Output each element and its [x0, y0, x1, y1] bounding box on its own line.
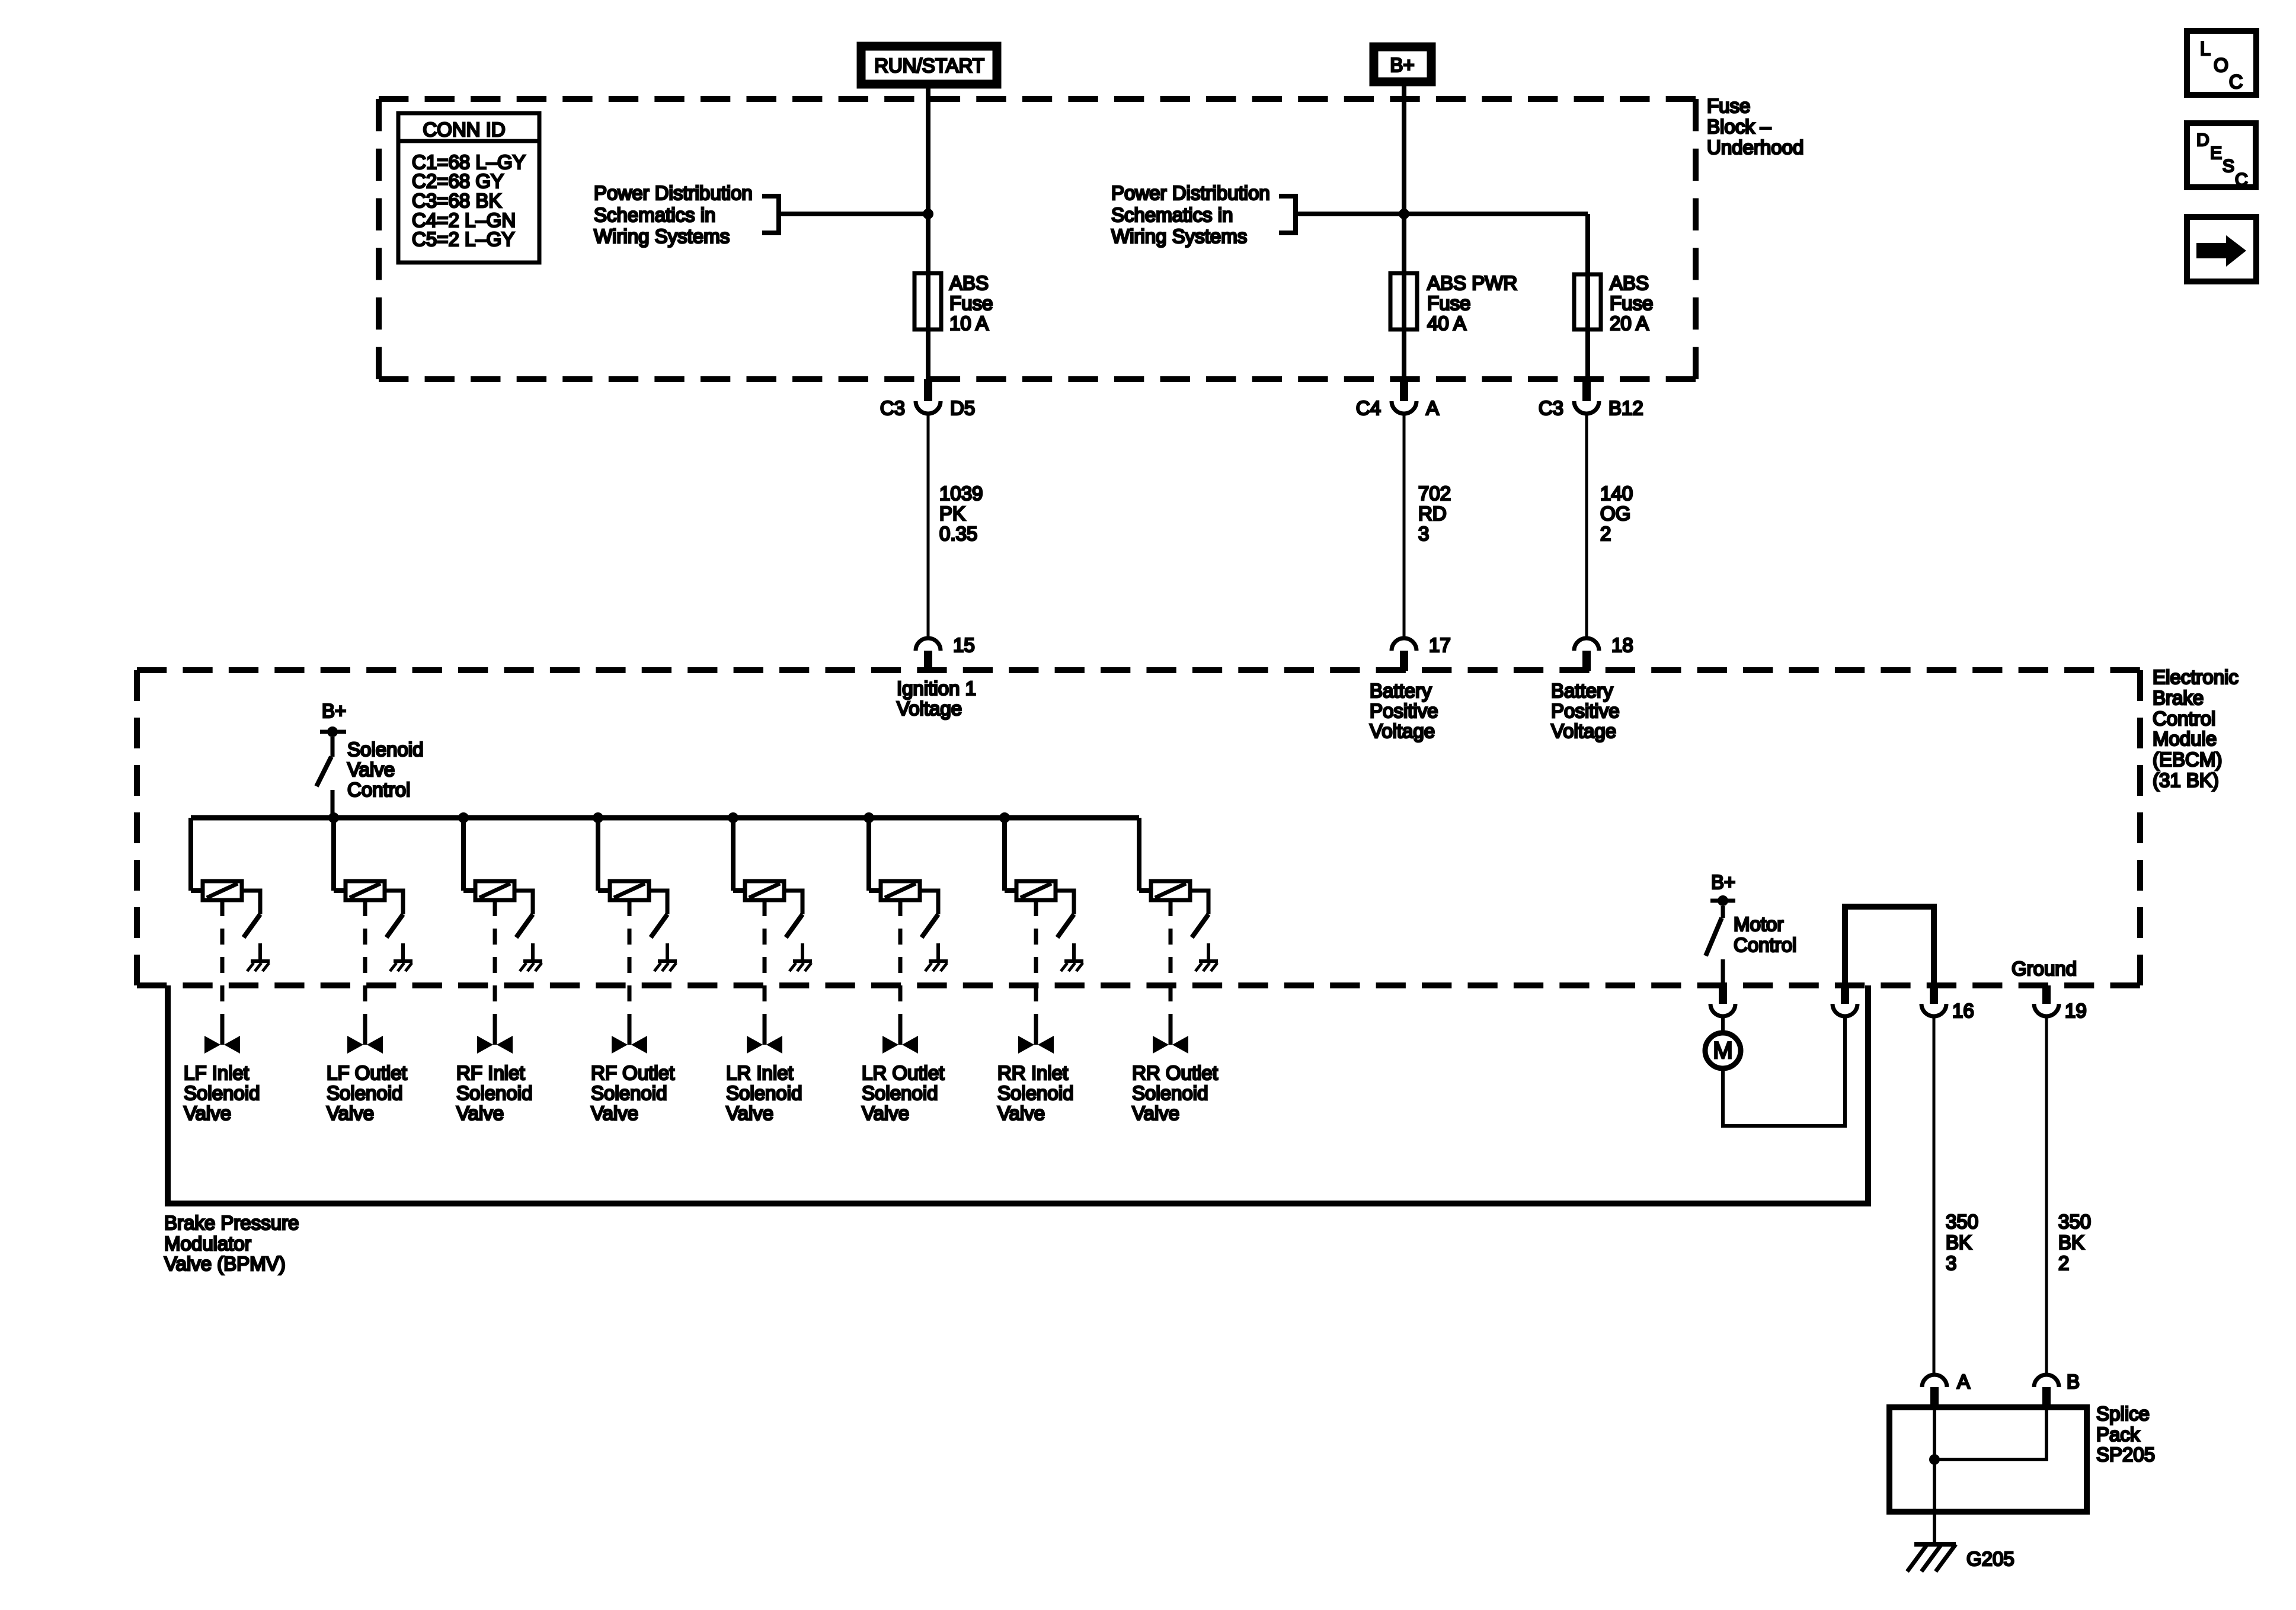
svg-text:Valve: Valve — [327, 1102, 374, 1124]
svg-text:3: 3 — [1946, 1252, 1956, 1274]
svg-text:Positive: Positive — [1551, 700, 1620, 722]
svg-text:Voltage: Voltage — [897, 697, 962, 719]
svg-text:RF Inlet: RF Inlet — [456, 1062, 525, 1084]
svg-text:Solenoid: Solenoid — [327, 1082, 402, 1104]
svg-text:Brake: Brake — [2153, 687, 2204, 709]
svg-text:Motor: Motor — [1734, 913, 1783, 935]
svg-text:Wiring Systems: Wiring Systems — [594, 225, 730, 247]
svg-text:Fuse: Fuse — [1707, 95, 1750, 117]
svg-text:702: 702 — [1418, 482, 1451, 504]
svg-text:Solenoid: Solenoid — [347, 738, 423, 760]
svg-text:Battery: Battery — [1551, 680, 1613, 702]
svg-text:Splice: Splice — [2096, 1403, 2150, 1425]
svg-text:LF Inlet: LF Inlet — [184, 1062, 249, 1084]
svg-text:OG: OG — [1600, 502, 1630, 524]
svg-text:Solenoid: Solenoid — [726, 1082, 802, 1104]
svg-text:A: A — [1957, 1371, 1970, 1393]
svg-text:C3: C3 — [1539, 397, 1563, 419]
svg-text:Valve: Valve — [591, 1102, 638, 1124]
svg-text:B+: B+ — [322, 700, 346, 722]
svg-text:1039: 1039 — [939, 482, 983, 504]
svg-text:PK: PK — [939, 502, 965, 524]
svg-text:Solenoid: Solenoid — [1132, 1082, 1208, 1104]
svg-text:C4: C4 — [1356, 397, 1381, 419]
svg-text:LF Outlet: LF Outlet — [327, 1062, 407, 1084]
svg-text:350: 350 — [1946, 1211, 1978, 1233]
svg-text:Wiring Systems: Wiring Systems — [1111, 225, 1247, 247]
svg-text:350: 350 — [2058, 1211, 2091, 1233]
svg-text:Solenoid: Solenoid — [591, 1082, 667, 1104]
svg-text:ABS: ABS — [949, 272, 989, 294]
svg-text:Control: Control — [1734, 934, 1796, 956]
svg-text:18: 18 — [1611, 634, 1633, 656]
svg-text:17: 17 — [1429, 634, 1451, 656]
svg-text:Ignition 1: Ignition 1 — [897, 677, 976, 699]
svg-text:ABS: ABS — [1610, 272, 1649, 294]
svg-text:Fuse: Fuse — [1427, 292, 1470, 314]
svg-text:Solenoid: Solenoid — [456, 1082, 532, 1104]
svg-text:Solenoid: Solenoid — [184, 1082, 260, 1104]
svg-text:Underhood: Underhood — [1707, 136, 1803, 158]
svg-text:D: D — [2196, 130, 2209, 150]
svg-text:Valve: Valve — [1132, 1102, 1179, 1124]
svg-text:CONN ID: CONN ID — [423, 119, 505, 140]
svg-text:Valve (BPMV): Valve (BPMV) — [164, 1253, 286, 1275]
svg-text:Module: Module — [2153, 728, 2217, 750]
svg-text:16: 16 — [1952, 1000, 1974, 1022]
svg-text:Brake Pressure: Brake Pressure — [164, 1212, 299, 1234]
svg-text:Valve: Valve — [347, 758, 395, 780]
svg-text:C5=2 L–GY: C5=2 L–GY — [412, 228, 514, 250]
svg-text:Valve: Valve — [997, 1102, 1045, 1124]
svg-text:ABS PWR: ABS PWR — [1427, 272, 1517, 294]
svg-text:Control: Control — [2153, 708, 2215, 729]
svg-text:Power Distribution: Power Distribution — [1111, 182, 1270, 204]
svg-text:Positive: Positive — [1370, 700, 1438, 722]
svg-text:LR Inlet: LR Inlet — [726, 1062, 794, 1084]
svg-text:Valve: Valve — [726, 1102, 773, 1124]
svg-text:Power Distribution: Power Distribution — [594, 182, 753, 204]
svg-text:BK: BK — [1946, 1231, 1972, 1253]
svg-text:Pack: Pack — [2096, 1423, 2140, 1445]
svg-text:B+: B+ — [1711, 871, 1735, 893]
svg-text:Control: Control — [347, 779, 410, 801]
svg-text:Valve: Valve — [184, 1102, 231, 1124]
svg-text:Fuse: Fuse — [1610, 292, 1653, 314]
svg-text:(31 BK): (31 BK) — [2153, 769, 2219, 791]
svg-text:B12: B12 — [1609, 397, 1643, 419]
svg-text:G205: G205 — [1966, 1548, 2014, 1570]
svg-text:C3=68 BK: C3=68 BK — [412, 190, 501, 212]
svg-text:S: S — [2223, 156, 2234, 176]
svg-text:LR Outlet: LR Outlet — [862, 1062, 944, 1084]
svg-text:Voltage: Voltage — [1370, 720, 1435, 742]
svg-text:B: B — [2067, 1371, 2080, 1393]
svg-text:SP205: SP205 — [2096, 1443, 2155, 1465]
svg-text:B+: B+ — [1390, 54, 1414, 76]
svg-text:Block –: Block – — [1707, 116, 1771, 137]
svg-text:C2=68 GY: C2=68 GY — [412, 170, 504, 192]
svg-text:BK: BK — [2058, 1231, 2084, 1253]
svg-text:RR Inlet: RR Inlet — [997, 1062, 1068, 1084]
svg-text:RF Outlet: RF Outlet — [591, 1062, 674, 1084]
svg-text:RUN/START: RUN/START — [874, 55, 984, 76]
svg-text:Modulator: Modulator — [164, 1233, 251, 1254]
svg-text:E: E — [2210, 143, 2222, 163]
svg-text:Electronic: Electronic — [2153, 666, 2239, 688]
svg-text:140: 140 — [1600, 482, 1633, 504]
svg-text:Valve: Valve — [456, 1102, 504, 1124]
svg-text:Fuse: Fuse — [949, 292, 993, 314]
svg-text:M: M — [1713, 1038, 1732, 1064]
svg-text:C: C — [2229, 71, 2243, 92]
svg-text:RR Outlet: RR Outlet — [1132, 1062, 1218, 1084]
svg-text:10 A: 10 A — [949, 312, 989, 334]
svg-text:Solenoid: Solenoid — [997, 1082, 1073, 1104]
svg-text:3: 3 — [1418, 523, 1429, 545]
svg-text:L: L — [2200, 38, 2211, 59]
svg-text:C3: C3 — [880, 397, 905, 419]
svg-text:Solenoid: Solenoid — [862, 1082, 938, 1104]
svg-text:C: C — [2235, 170, 2248, 190]
svg-text:O: O — [2214, 55, 2228, 76]
svg-text:RD: RD — [1418, 502, 1447, 524]
svg-text:Schematics in: Schematics in — [594, 204, 715, 226]
svg-text:20 A: 20 A — [1610, 312, 1649, 334]
svg-text:Voltage: Voltage — [1551, 720, 1616, 742]
svg-text:0.35: 0.35 — [939, 523, 977, 545]
svg-text:Schematics in: Schematics in — [1111, 204, 1233, 226]
svg-text:2: 2 — [2058, 1252, 2069, 1274]
svg-text:A: A — [1426, 397, 1439, 419]
svg-text:40 A: 40 A — [1427, 312, 1466, 334]
svg-text:Ground: Ground — [2012, 958, 2077, 980]
svg-text:Battery: Battery — [1370, 680, 1432, 702]
svg-text:15: 15 — [953, 634, 975, 656]
svg-text:Valve: Valve — [862, 1102, 909, 1124]
svg-text:19: 19 — [2065, 1000, 2087, 1022]
svg-text:(EBCM): (EBCM) — [2153, 748, 2222, 770]
svg-text:2: 2 — [1600, 523, 1611, 545]
svg-text:D5: D5 — [950, 397, 975, 419]
